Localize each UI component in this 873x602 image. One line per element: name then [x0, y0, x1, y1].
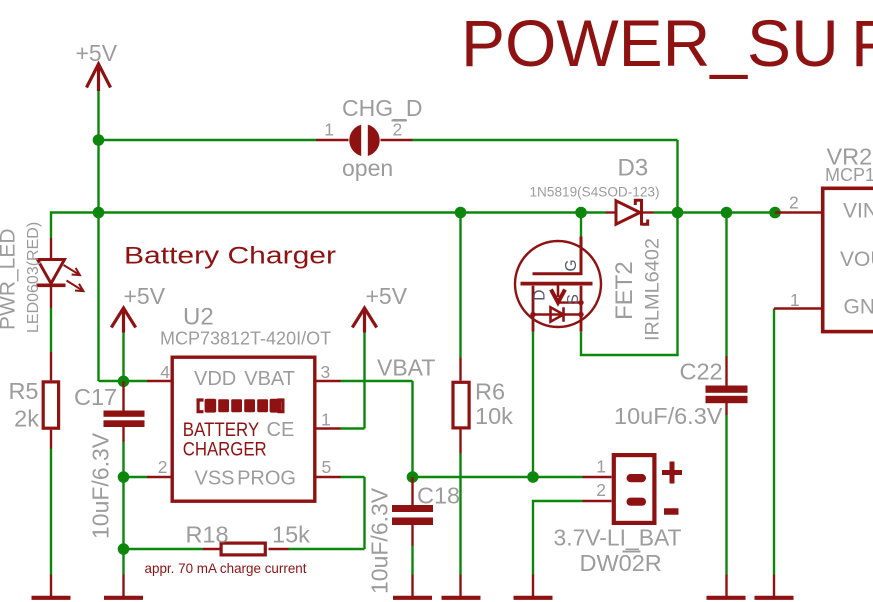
svg-text:C18: C18 — [417, 483, 460, 509]
svg-text:S: S — [565, 294, 582, 304]
svg-text:3: 3 — [321, 362, 331, 382]
svg-text:4: 4 — [160, 362, 170, 382]
svg-text:+5V: +5V — [76, 40, 118, 66]
svg-text:1: 1 — [790, 290, 800, 310]
svg-text:POWER_SU: POWER_SU — [461, 6, 839, 80]
svg-text:VSS: VSS — [195, 468, 235, 490]
svg-text:VBAT: VBAT — [377, 355, 435, 381]
svg-text:2: 2 — [789, 193, 799, 213]
svg-text:2: 2 — [596, 480, 606, 500]
svg-text:CHG_D: CHG_D — [342, 95, 423, 121]
svg-text:PROG: PROG — [237, 468, 296, 490]
svg-text:+5V: +5V — [124, 283, 166, 309]
svg-text:R6: R6 — [475, 379, 505, 405]
svg-text:VOUT: VOUT — [840, 248, 873, 271]
svg-text:1: 1 — [324, 120, 334, 140]
svg-text:FET2: FET2 — [611, 261, 638, 320]
svg-text:PWR_LED: PWR_LED — [0, 228, 20, 330]
svg-text:DW02R: DW02R — [580, 550, 662, 576]
svg-text:5: 5 — [322, 457, 332, 477]
svg-text:10uF/6.3V: 10uF/6.3V — [614, 403, 723, 429]
svg-text:CHARGER: CHARGER — [183, 440, 267, 461]
svg-text:appr. 70 mA charge current: appr. 70 mA charge current — [145, 560, 307, 576]
svg-text:VDD: VDD — [194, 368, 236, 390]
svg-text:C17: C17 — [74, 384, 117, 410]
svg-text:VBAT: VBAT — [244, 368, 295, 390]
svg-text:D: D — [531, 290, 548, 301]
svg-text:BATTERY: BATTERY — [183, 420, 260, 441]
svg-text:R5: R5 — [8, 378, 38, 404]
svg-text:2: 2 — [158, 457, 168, 477]
svg-text:LED0603(RED): LED0603(RED) — [25, 222, 42, 333]
svg-text:Battery Charger: Battery Charger — [124, 243, 336, 270]
svg-text:10k: 10k — [475, 403, 513, 429]
svg-text:2: 2 — [393, 120, 403, 140]
svg-text:U2: U2 — [183, 304, 214, 331]
svg-text:MCP73812T-420I/OT: MCP73812T-420I/OT — [160, 329, 331, 349]
svg-text:1: 1 — [321, 410, 331, 430]
svg-text:R18: R18 — [186, 522, 229, 548]
svg-text:15k: 15k — [272, 522, 310, 548]
svg-text:open: open — [342, 155, 393, 181]
svg-text:CE: CE — [267, 419, 295, 441]
svg-text:D3: D3 — [618, 155, 649, 182]
svg-text:10uF/6.3V: 10uF/6.3V — [88, 432, 114, 539]
svg-text:P: P — [851, 6, 873, 80]
svg-text:1N5819(S4SOD-123): 1N5819(S4SOD-123) — [530, 184, 660, 200]
svg-text:10uF/6.3V: 10uF/6.3V — [367, 487, 393, 594]
svg-text:2k: 2k — [14, 406, 39, 432]
svg-text:IRLML6402: IRLML6402 — [643, 238, 664, 341]
svg-text:VIN: VIN — [843, 200, 873, 223]
svg-text:C22: C22 — [680, 359, 723, 385]
svg-text:+5V: +5V — [366, 283, 408, 309]
svg-text:G: G — [563, 259, 580, 271]
svg-text:3.7V-LI_BAT: 3.7V-LI_BAT — [554, 525, 682, 551]
svg-text:1: 1 — [596, 457, 606, 477]
svg-text:MCP1700: MCP1700 — [825, 165, 873, 185]
svg-text:GND: GND — [844, 296, 873, 319]
